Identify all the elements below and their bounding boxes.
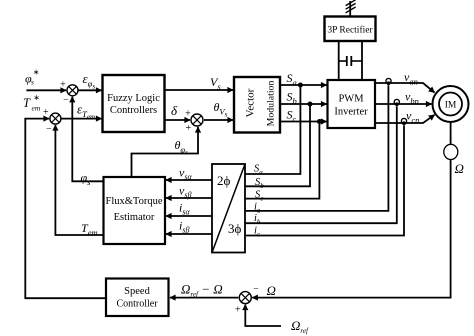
motor IM [433,86,469,122]
svg-text:Ω: Ω [455,161,464,176]
current sensor b [394,99,399,106]
svg-text:Controllers: Controllers [110,105,157,116]
wire: S_c drop to 2phi/3phi [245,122,319,199]
speed sensor [444,144,458,159]
label Omega (sensor) [455,161,464,176]
block: PWM Inverter [328,80,376,128]
label Omega_ref [291,318,309,335]
svg-text:s: s [31,78,34,87]
label theta_phis [175,138,189,157]
wire: S_a Vector to PWM [280,84,327,86]
wire: S_b drop to 2phi/3phi [245,104,310,186]
wire: phi_s feedback estimator to J1 [72,97,103,182]
label Omega (at J4) [267,283,276,298]
wire: i_salpha 2phi box to estimator [166,215,212,217]
svg-text:Controller: Controller [116,299,158,310]
label S_b (top) [287,90,297,107]
label v_cn [406,109,419,126]
wire: flux reference input into J1 [26,89,66,91]
svg-text:+: + [185,123,191,134]
label i_a (at 2phi box) [254,202,261,215]
wire: v_cn PWM to motor [375,115,435,123]
wire: motor to speed sensor [450,122,452,145]
label V_s [210,75,221,92]
wire: T_em feedback estimator to J2 [55,125,103,235]
label S_a (top) [287,71,297,88]
wire: v_bn PWM to motor [375,103,432,105]
junction dot S_a [298,83,303,88]
summing junction J3 (theta) [185,109,203,135]
label v_sbeta [179,184,191,200]
label phi_s* [25,68,39,87]
svg-text:Estimator: Estimator [114,212,155,223]
label S_a (at 2phi box) [254,164,263,177]
label phi_s [81,171,92,188]
svg-text:Vector: Vector [244,88,256,117]
capacitor C (DC link) [339,56,362,66]
wire: i_a drop to 2phi/3phi [245,85,388,210]
junction dot S_b [308,102,313,107]
svg-text:∗: ∗ [33,68,39,77]
svg-text:−: − [46,124,52,135]
current sensor a [386,78,391,85]
svg-text:Speed: Speed [124,286,150,297]
svg-text:∗: ∗ [34,93,40,102]
label eps_phis [83,71,96,91]
label v_an [404,70,418,87]
label S_b (at 2phi box) [255,177,264,190]
svg-text:Ω: Ω [267,283,276,298]
svg-text:+: + [60,80,66,91]
svg-text:δ: δ [171,103,178,118]
label theta_Vs [214,100,228,119]
svg-text:2ϕ: 2ϕ [217,173,231,188]
label v_salpha [179,166,192,182]
junction dot S_c [317,119,322,124]
wire: J2 to Fuzzy (eps_Tem) [61,118,102,120]
svg-text:+: + [185,109,191,120]
svg-text:Inverter: Inverter [334,107,368,118]
svg-text:+: + [235,305,241,316]
label i_salpha [179,201,190,217]
label Omega_ref - Omega [181,282,223,299]
summing junction J1 (flux) [60,80,78,106]
wire: v_sbeta 2phi box to estimator [166,197,212,199]
wire: J4 to Speed Controller [170,297,238,299]
wire: torque reference riser (from speed controller output) [25,119,106,299]
label T_em* [23,93,41,113]
block: Vector Modulation [234,77,280,133]
label T_em [81,221,98,238]
wire: i_b drop to 2phi/3phi [245,106,397,223]
svg-text:3ϕ: 3ϕ [228,221,242,236]
label i_b (at 2phi box) [254,213,261,226]
wire: J1 to Fuzzy (eps_phi) [78,89,102,91]
block: Speed Controller [106,279,169,317]
wire: i_sbeta 2phi box to estimator [166,233,212,235]
wire: v_salpha 2phi box to estimator [166,179,212,181]
wire: S_a drop to 2phi/3phi [245,85,300,174]
wire: S_c Vector to PWM [280,121,327,123]
wire: speed feedback to J4 [252,160,450,298]
block: Fuzzy Logic Controllers [103,75,165,132]
svg-text:T: T [23,96,31,110]
svg-text:−: − [63,95,69,106]
label delta [171,103,178,118]
wire: theta_phis from estimator top to J3 [132,127,199,177]
wire: Omega_ref input to J4 [245,305,281,326]
label S_c (at 2phi box) [255,190,264,203]
svg-text:Flux&Torque: Flux&Torque [105,196,162,207]
summing junction J4 (speed) [235,284,259,316]
svg-text:IM: IM [445,101,457,111]
svg-text:Ωref − Ω: Ωref − Ω [181,282,223,299]
wire: Vs from Fuzzy to Vector Modulation [165,89,234,91]
DC link wires rectifier to inverter [339,41,362,80]
wire: v_an PWM to motor [375,83,435,93]
svg-text:em: em [32,104,41,113]
label v_bn [405,90,419,107]
label i_c (at 2phi box) [254,226,261,239]
wire: S_b Vector to PWM [280,103,327,105]
svg-text:PWM: PWM [338,94,364,105]
3-phase supply symbol [346,0,356,17]
block: 3P Rectifier [325,17,376,42]
wire: J3 to Vector Modulation (theta_Vs) [204,119,233,121]
label eps_Tem [77,102,95,122]
wire: i_c drop to 2phi/3phi [245,125,404,235]
svg-text:−: − [253,284,259,295]
block: Flux&Torque Estimator [104,177,166,244]
label i_sbeta [179,219,189,235]
label S_c (top) [287,108,297,125]
svg-text:Modulation: Modulation [266,81,277,127]
svg-text:3P Rectifier: 3P Rectifier [327,25,373,36]
wire: delta from Fuzzy to J3 [165,119,191,121]
summing junction J2 (torque) [43,107,61,135]
current sensor c [401,118,406,125]
svg-text:+: + [43,107,49,118]
block: 2phi/3phi transformation [212,164,245,253]
svg-text:Fuzzy Logic: Fuzzy Logic [107,93,160,104]
